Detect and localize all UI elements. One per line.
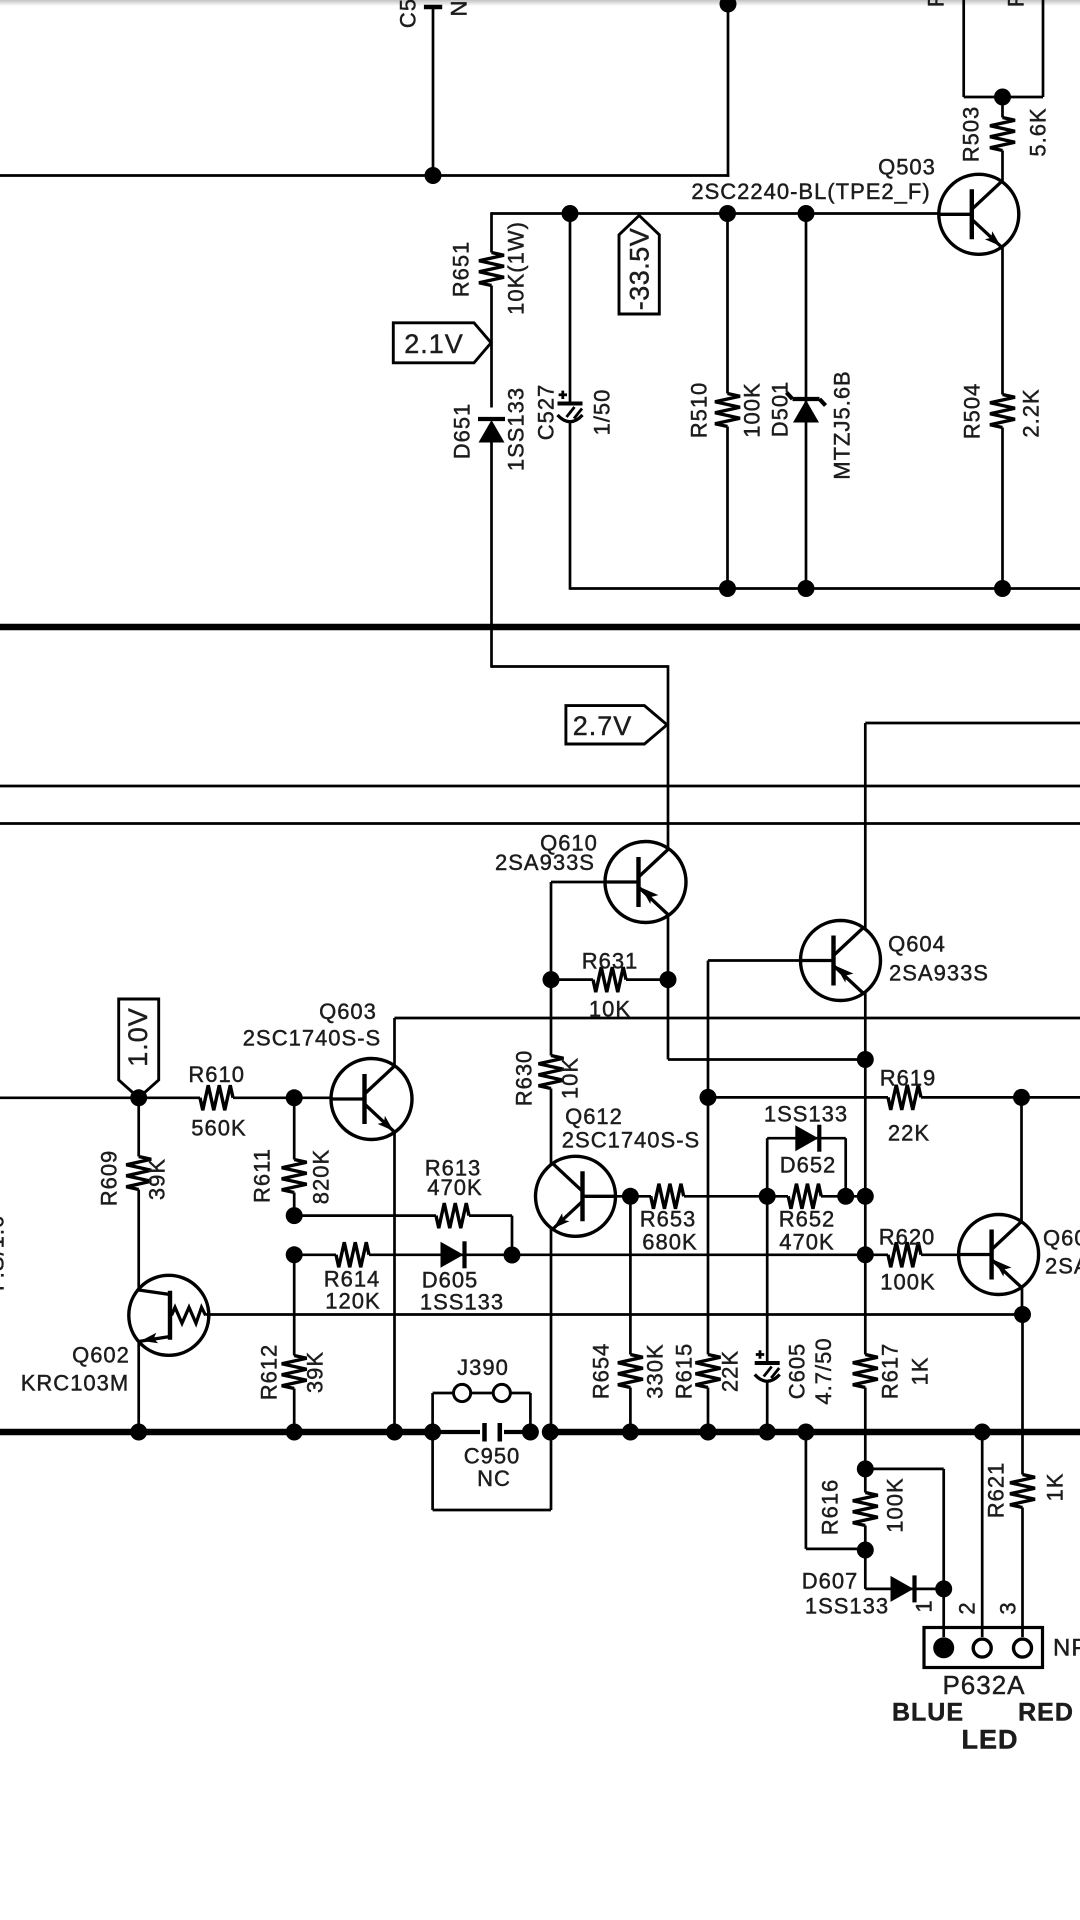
left edge label fragment — [0, 1215, 9, 1291]
wire top-right branch F1 — [924, 0, 964, 97]
node J390 right at bus — [522, 1424, 539, 1441]
node Q602 emitter at bus — [130, 1424, 147, 1441]
wire bus y786 — [0, 785, 1080, 788]
node D652 left — [759, 1188, 776, 1205]
wire bus y823 — [0, 822, 1080, 825]
svg-text:2.7V: 2.7V — [573, 711, 633, 741]
svg-text:330K: 330K — [643, 1343, 668, 1398]
svg-text:N: N — [447, 0, 472, 16]
label BLUE LED — [892, 1699, 1074, 1755]
svg-text:Q612: Q612 — [565, 1104, 623, 1129]
svg-text:1.0V: 1.0V — [123, 1007, 153, 1067]
transistor Q610 2SA933S — [495, 831, 686, 923]
svg-text:R654: R654 — [589, 1343, 614, 1400]
node C527 top — [562, 205, 579, 222]
svg-text:C605: C605 — [785, 1343, 810, 1400]
resistor R653 680K — [640, 1184, 788, 1255]
node wire A right end — [857, 1188, 874, 1205]
wire joining branches y97 — [964, 96, 1043, 99]
svg-text:2.2K: 2.2K — [1019, 388, 1044, 437]
wire Q503 base net y213 — [492, 212, 940, 215]
node wire B start — [286, 1246, 303, 1263]
svg-text:100K: 100K — [880, 1270, 935, 1295]
node D501 top — [798, 205, 815, 222]
svg-text:1SS133: 1SS133 — [504, 387, 529, 471]
diode D605 1SS133 — [420, 1241, 888, 1314]
node R612 at bus — [286, 1424, 303, 1441]
node R615 top — [700, 1089, 717, 1106]
bus heavy ground left segment — [0, 1429, 433, 1436]
wire 2.7V jog — [492, 665, 669, 851]
svg-text:5.6K: 5.6K — [1026, 107, 1051, 156]
svg-text:KRC103M: KRC103M — [21, 1371, 129, 1396]
zener diode D501 MTZJ5.6B — [768, 212, 855, 590]
wire Q610 base — [551, 882, 606, 980]
node R510 top — [719, 205, 736, 222]
svg-text:MTZJ5.6B: MTZJ5.6B — [830, 370, 855, 479]
resistor R651 10K(1W) — [449, 212, 529, 407]
jumper J390 — [433, 1355, 531, 1432]
svg-text:1K: 1K — [908, 1357, 933, 1386]
voltage flag 1.0V — [119, 999, 159, 1098]
capacitor C5xx (cut off at top) — [396, 0, 472, 28]
svg-text:2SA933S: 2SA933S — [889, 961, 989, 986]
svg-text:C950: C950 — [464, 1444, 521, 1469]
node R611 bottom / R613 start — [286, 1207, 303, 1224]
resistor R631 10K — [551, 949, 668, 1022]
resistor R510 100K — [687, 212, 765, 590]
svg-text:NC: NC — [477, 1466, 511, 1491]
svg-text:470K: 470K — [427, 1175, 482, 1200]
svg-text:3: 3 — [996, 1601, 1021, 1614]
transistor Q603 2SC1740S-S — [243, 999, 412, 1140]
svg-text:1SS133: 1SS133 — [805, 1594, 889, 1619]
svg-text:D651: D651 — [450, 403, 475, 460]
diode D651 1SS133 — [450, 387, 529, 668]
transistor Q602 KRC103M — [21, 1275, 209, 1395]
svg-text:1: 1 — [912, 1599, 937, 1612]
svg-text:22K: 22K — [888, 1121, 930, 1146]
resistor R619 22K — [708, 1066, 1080, 1146]
wire Q604 collector — [864, 992, 867, 1197]
svg-text:2SA933S: 2SA933S — [495, 850, 595, 875]
capacitor C527 1/50 — [534, 212, 615, 590]
svg-text:D607: D607 — [802, 1569, 859, 1594]
svg-text:39K: 39K — [303, 1351, 328, 1393]
svg-text:120K: 120K — [325, 1289, 380, 1314]
svg-text:C5: C5 — [396, 0, 421, 28]
svg-text:680K: 680K — [642, 1230, 697, 1255]
svg-text:10K: 10K — [558, 1057, 583, 1099]
svg-text:R616: R616 — [818, 1479, 843, 1536]
node R616 bottom — [857, 1542, 874, 1559]
resistor R503 5.6K — [959, 97, 1051, 183]
node R613 joins wire B — [504, 1247, 521, 1264]
resistor R612 39K — [257, 1255, 328, 1433]
wire to pin 2 — [955, 1432, 983, 1637]
svg-text:R651: R651 — [449, 241, 474, 298]
resistor R610 560K — [188, 1062, 332, 1141]
node R611 top — [286, 1089, 303, 1106]
capacitor C950 NC — [433, 1423, 531, 1491]
node R503 top — [994, 89, 1011, 106]
resistor R620 100K — [879, 1225, 959, 1295]
wire Q605 emitter up — [1020, 1097, 1023, 1223]
svg-text:1SS133: 1SS133 — [764, 1102, 848, 1127]
wire Q612 emitter — [550, 1229, 553, 1510]
node wire B at R617 — [857, 1246, 874, 1263]
svg-text:100K: 100K — [883, 1477, 908, 1532]
node R615 at bus — [700, 1424, 717, 1441]
svg-text:39K: 39K — [145, 1158, 170, 1200]
wire y723 from right — [865, 723, 1080, 928]
svg-text:2SA933S: 2SA933S — [1045, 1254, 1080, 1279]
svg-text:820K: 820K — [309, 1149, 334, 1204]
svg-text:RED: RED — [1018, 1699, 1074, 1727]
svg-text:R617: R617 — [878, 1343, 903, 1400]
bus heavy ground right segment — [550, 1429, 1080, 1436]
wire Q610 collector — [668, 913, 865, 1060]
svg-text:1/50: 1/50 — [590, 389, 615, 436]
svg-text:R504: R504 — [960, 383, 985, 440]
node R654 at bus — [622, 1424, 639, 1441]
svg-text:P.S/1.6: P.S/1.6 — [0, 1215, 9, 1291]
svg-text:Q503: Q503 — [878, 155, 936, 180]
capacitor C605 4.7/50 — [755, 1196, 836, 1433]
svg-text:Q602: Q602 — [72, 1343, 130, 1368]
wire bus to R616 bottom — [806, 1432, 866, 1549]
resistor R615 22K — [672, 1097, 743, 1433]
wire top-right branch F2 — [1004, 0, 1044, 97]
resistor R613 470K — [294, 1156, 512, 1256]
node R609 top — [130, 1089, 147, 1106]
node Q605 collector to R621 — [1014, 1306, 1031, 1323]
node Q612 base junction — [622, 1188, 639, 1205]
svg-text:2: 2 — [955, 1601, 980, 1614]
wire to pin 1 — [912, 1589, 944, 1637]
node at C5xx junction — [425, 167, 442, 184]
resistor R614 120K — [294, 1242, 440, 1313]
wire base net y1098 — [0, 1096, 200, 1099]
node Q603 emitter at bus — [386, 1424, 403, 1441]
connector P632A — [924, 1628, 1080, 1701]
resistor R611 820K — [250, 1098, 334, 1216]
wire horizontal y175 — [0, 174, 729, 177]
svg-text:470K: 470K — [779, 1230, 834, 1255]
transistor Q604 2SA933S — [801, 921, 989, 1001]
node pin2 at bus — [974, 1424, 991, 1441]
node bus to R616 loop — [797, 1424, 814, 1441]
svg-text:R620: R620 — [879, 1225, 936, 1250]
node R619 right at Q605 emitter — [1013, 1089, 1030, 1106]
svg-text:Q603: Q603 — [319, 999, 377, 1024]
wire Q603 emitter — [393, 1131, 396, 1434]
svg-text:R612: R612 — [257, 1344, 282, 1401]
svg-text:J390: J390 — [457, 1355, 509, 1380]
diode D607 1SS133 — [802, 1550, 944, 1619]
resistor R609 39K — [97, 1098, 170, 1291]
node D652 right — [837, 1188, 854, 1205]
resistor R617 1K — [853, 1197, 933, 1469]
svg-text:D652: D652 — [780, 1153, 837, 1178]
wire Q503 emitter — [1001, 246, 1004, 395]
svg-text:1SS133: 1SS133 — [420, 1290, 504, 1315]
svg-text:560K: 560K — [191, 1116, 246, 1141]
svg-text:4.7/50: 4.7/50 — [811, 1337, 836, 1404]
node bus left end — [424, 1424, 441, 1441]
node R504 bottom — [994, 580, 1011, 597]
svg-text:R631: R631 — [582, 949, 639, 974]
resistor R630 10K — [512, 980, 583, 1165]
svg-text:R503: R503 — [959, 106, 984, 163]
svg-text:Q604: Q604 — [888, 932, 946, 957]
node C605 at bus — [759, 1424, 776, 1441]
transistor Q612 2SC1740S-S — [536, 1104, 701, 1236]
svg-text:R621: R621 — [984, 1462, 1009, 1519]
wire Q602 emitter — [137, 1341, 140, 1433]
bus heavy horizontal y627 — [0, 624, 1080, 631]
svg-text:LED: LED — [962, 1725, 1019, 1755]
transistor Q503 2SC2240-BL(TPE2_F) — [691, 155, 1018, 255]
svg-text:R619: R619 — [880, 1066, 937, 1091]
wire from C5xx down to bus — [432, 7, 435, 176]
wire rising to top edge — [727, 0, 730, 177]
wire A Q612 base net — [616, 1195, 652, 1198]
wire R616 top branch — [865, 1469, 943, 1589]
voltage flag -33.5V — [619, 216, 659, 315]
resistor R652 470K — [779, 1184, 866, 1255]
svg-text:R653: R653 — [640, 1207, 697, 1232]
node R631 right — [660, 971, 677, 988]
diode D652 1SS133 — [764, 1102, 848, 1198]
svg-text:100K: 100K — [740, 382, 765, 437]
resistor R654 330K — [589, 1196, 668, 1433]
svg-text:2SC1740S-S: 2SC1740S-S — [562, 1128, 700, 1153]
transistor Q605 2SA933S — [959, 1215, 1080, 1295]
svg-text:NP: NP — [1053, 1635, 1080, 1662]
svg-text:BLUE: BLUE — [892, 1699, 964, 1727]
svg-text:R610: R610 — [188, 1062, 245, 1087]
resistor R504 2.2K — [960, 383, 1044, 590]
svg-text:-33.5V: -33.5V — [625, 228, 655, 311]
svg-text:R510: R510 — [687, 382, 712, 439]
node R631 left — [543, 971, 560, 988]
node Q610-Q604 collector join — [857, 1051, 874, 1068]
svg-text:2.1V: 2.1V — [404, 329, 464, 359]
node at top edge — [720, 0, 737, 13]
svg-text:22K: 22K — [718, 1350, 743, 1392]
voltage flag 2.7V — [566, 706, 667, 744]
resistor R621 1K — [984, 1315, 1068, 1638]
wire Q602 base to Q605 collector — [206, 1313, 1023, 1316]
svg-text:1K: 1K — [1043, 1473, 1068, 1502]
node Q612 emitter at bus — [542, 1424, 559, 1441]
svg-text:F: F — [1004, 0, 1029, 7]
wire Q604 base — [708, 961, 801, 1098]
svg-text:R615: R615 — [672, 1343, 697, 1400]
node R510 bottom — [719, 580, 736, 597]
svg-text:2SC1740S-S: 2SC1740S-S — [243, 1026, 381, 1051]
box around C950 — [433, 1432, 551, 1510]
svg-text:P632A: P632A — [942, 1670, 1025, 1700]
svg-text:10K(1W): 10K(1W) — [504, 221, 529, 315]
svg-text:R611: R611 — [250, 1148, 275, 1203]
svg-text:2SC2240-BL(TPE2_F): 2SC2240-BL(TPE2_F) — [691, 179, 930, 204]
svg-text:F: F — [924, 0, 949, 7]
node R616 top — [857, 1460, 874, 1477]
resistor R616 100K — [818, 1469, 908, 1550]
svg-text:R609: R609 — [97, 1150, 122, 1207]
svg-text:C527: C527 — [534, 384, 559, 441]
node D607 cathode junction — [935, 1580, 952, 1597]
node D501 bottom — [798, 580, 815, 597]
wire bottom of bias box y588 — [570, 587, 1080, 590]
svg-text:Q605: Q605 — [1043, 1226, 1080, 1251]
svg-text:R652: R652 — [779, 1207, 836, 1232]
svg-text:D501: D501 — [768, 381, 793, 438]
wire Q603 collector — [395, 1018, 1080, 1067]
svg-text:R630: R630 — [512, 1050, 537, 1107]
voltage flag 2.1V — [393, 323, 491, 363]
wire Q605 collector down — [1021, 1287, 1024, 1315]
